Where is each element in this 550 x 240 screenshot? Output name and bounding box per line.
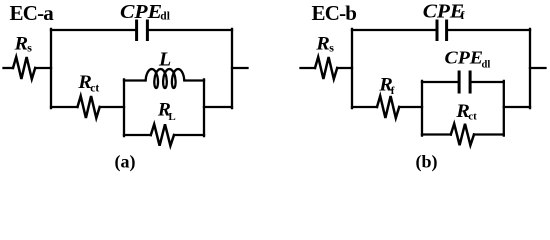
wire: left vertical node bus (EC-b): [351, 29, 353, 108]
wire: inner box to right node (EC-b): [504, 106, 530, 108]
wire: inner box bottom edge left segment (EC-b): [422, 133, 451, 135]
svg-text:CPE: CPE: [423, 0, 464, 22]
svg-text:R: R: [315, 34, 330, 54]
svg-text:L: L: [158, 49, 171, 71]
svg-text:s: s: [27, 40, 32, 54]
wire: Rct to inner box (EC-a): [100, 106, 124, 108]
svg-text:ct: ct: [90, 82, 99, 94]
wire: inner box bottom edge right segment (EC-a): [174, 134, 204, 136]
resistor Rct (EC-a): [78, 96, 100, 118]
svg-text:CPE: CPE: [120, 0, 162, 23]
wire: inner box bottom edge left segment (EC-a): [124, 134, 151, 136]
wire: EC-a input terminal: [4, 67, 14, 69]
wire: inner box left edge (EC-b): [421, 81, 423, 136]
wire: top branch right of CPEdl (EC-a): [149, 29, 232, 31]
wire: inner box top edge left segment (EC-a): [124, 79, 146, 81]
wire: right vertical node bus (EC-a): [231, 29, 233, 108]
wire: top branch left of CPEf (EC-b): [352, 29, 436, 31]
wire: top branch left of CPEdl (EC-a): [51, 29, 135, 31]
capacitor CPEdl plates (EC-a): [137, 21, 148, 40]
capacitor CPEdl plates (EC-b): [459, 72, 470, 92]
svg-text:ct: ct: [468, 111, 477, 123]
wire: left vertical node bus (EC-a): [50, 29, 52, 108]
resistor Rct (EC-b): [451, 124, 474, 145]
svg-text:R: R: [13, 34, 28, 54]
wire: Rf to inner box (EC-b): [399, 106, 422, 108]
svg-text:EC-a: EC-a: [10, 1, 55, 25]
svg-text:EC-b: EC-b: [312, 1, 357, 25]
svg-text:dl: dl: [160, 10, 170, 22]
svg-text:(a): (a): [115, 152, 136, 173]
wire: Rs to left node (EC-a): [35, 67, 51, 69]
wire: inner box bottom edge right segment (EC-b): [474, 133, 504, 135]
wire: bottom branch to Rf (EC-b): [352, 106, 377, 108]
svg-text:s: s: [329, 40, 334, 54]
resistor RL (EC-a): [151, 124, 174, 145]
inductor L (EC-a): [146, 69, 185, 88]
svg-text:dl: dl: [482, 59, 491, 70]
svg-text:CPE: CPE: [445, 48, 483, 68]
svg-text:(b): (b): [416, 152, 438, 173]
wire: EC-a output terminal: [232, 67, 248, 69]
wire: EC-b output terminal: [530, 67, 546, 69]
wire: bottom branch to Rct (EC-a): [51, 106, 78, 108]
wire: inner box top edge right segment (EC-a): [184, 79, 204, 81]
wire: right vertical node bus (EC-b): [529, 29, 531, 108]
wire: inner box left edge (EC-a): [123, 79, 125, 136]
wire: inner box right edge (EC-b): [503, 81, 505, 136]
wire: inner box top edge left segment (EC-b): [422, 81, 458, 83]
wire: inner box top edge right segment (EC-b): [472, 81, 504, 83]
wire: top branch right of CPEf (EC-b): [448, 29, 530, 31]
wire: inner box right edge (EC-a): [203, 79, 205, 136]
resistor Rs (EC-a): [13, 57, 35, 79]
svg-text:f: f: [391, 85, 395, 97]
svg-text:L: L: [168, 111, 175, 123]
capacitor CPEf plates (EC-b): [437, 21, 447, 40]
wire: EC-b input terminal: [301, 67, 316, 69]
wire: Rs to left node (EC-b): [337, 67, 352, 69]
resistor Rf (EC-b): [377, 96, 399, 118]
wire: inner box to right node (EC-a): [204, 106, 232, 108]
resistor Rs (EC-b): [315, 57, 337, 79]
svg-text:f: f: [461, 10, 465, 22]
